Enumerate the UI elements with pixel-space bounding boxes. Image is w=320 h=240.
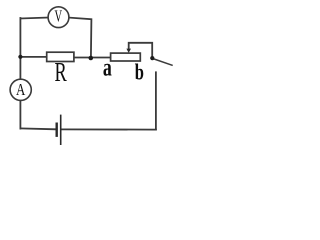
svg-text:a: a: [103, 52, 112, 81]
svg-text:V: V: [54, 7, 62, 26]
svg-text:b: b: [135, 60, 144, 85]
svg-text:A: A: [16, 81, 25, 99]
svg-text:R: R: [54, 57, 67, 87]
